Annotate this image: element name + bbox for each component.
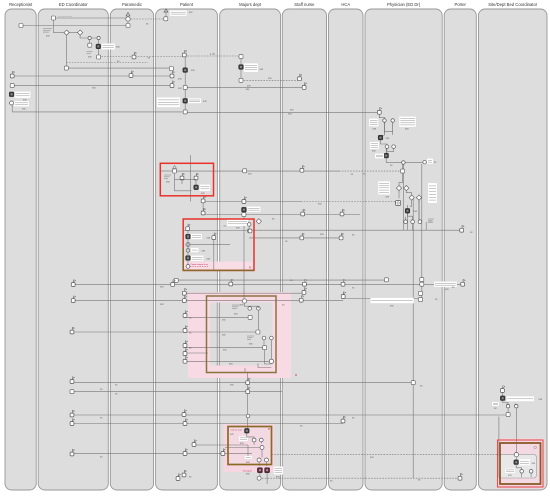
wire gateway down2	[418, 199, 420, 222]
label cubicle cleaned ready	[244, 63, 258, 72]
event p col4	[183, 326, 187, 333]
task ED coordinator start	[51, 16, 55, 20]
wire into box5	[515, 417, 517, 455]
tiny label	[249, 266, 251, 270]
wire receptionist to patient 2	[12, 85, 172, 87]
annotation	[87, 52, 93, 54]
wire box3 obs1	[185, 316, 250, 318]
highlight pink region around majors treatment box	[188, 292, 291, 378]
task specialty a	[243, 169, 247, 173]
event p col5	[183, 341, 187, 348]
tiny label	[539, 398, 543, 401]
annotation ED notes	[43, 29, 52, 33]
dark task patient seen by dr	[186, 234, 191, 239]
lane Receptionist	[5, 2, 36, 490]
event EDC row2	[71, 296, 75, 303]
box5 inner rounded rect	[498, 454, 536, 478]
event HCA bed	[341, 416, 346, 423]
tiny label	[160, 303, 164, 306]
wire b3 loop	[264, 340, 271, 364]
label ED front desk	[15, 92, 31, 99]
task register	[88, 43, 92, 47]
dark task allocate porter	[514, 460, 519, 465]
tiny label	[247, 84, 251, 87]
wire b3 entry	[245, 303, 259, 308]
event staff nurse accepts	[302, 83, 307, 90]
wire r2 spine	[187, 231, 189, 266]
dark task patient moves	[183, 68, 188, 73]
gateway ring node	[396, 201, 401, 206]
task physician decision	[411, 381, 415, 385]
event paramedic handover call	[132, 52, 136, 59]
event nurse tests	[300, 233, 305, 240]
svg-text:HCA: HCA	[341, 2, 350, 7]
event HCA row2	[341, 292, 346, 299]
wire long handover row1	[73, 283, 463, 285]
tiny label	[117, 60, 120, 63]
dark task patient to cubicle	[183, 99, 188, 104]
node b5 a	[520, 470, 524, 474]
dark maroon task t1	[257, 468, 262, 473]
event r2 row	[186, 224, 191, 231]
wire majors to staff nurse dashed	[241, 79, 299, 81]
wire majors spine	[240, 56, 242, 80]
event patient bed	[182, 410, 186, 417]
wire obs row	[184, 292, 304, 294]
dark task patient ready to move	[186, 256, 191, 261]
tiny label	[372, 150, 376, 153]
svg-text:R: R	[268, 427, 270, 431]
wire receptionist to paramedic	[21, 25, 128, 27]
event specialty nurse	[300, 166, 305, 173]
tiny label	[189, 11, 193, 14]
tiny label	[189, 476, 192, 479]
node small b	[97, 36, 100, 39]
tiny label	[452, 286, 455, 289]
wire box3 obs2	[72, 331, 258, 333]
wire results row	[176, 279, 386, 281]
lane Majors dept	[220, 2, 281, 490]
node assess2	[391, 119, 395, 123]
tiny label	[207, 236, 211, 239]
task transfer done	[242, 213, 246, 217]
task EDC dec2	[70, 390, 74, 394]
event patient arrives front desk	[10, 71, 15, 78]
wire tests	[249, 237, 341, 239]
highlight pink strip in red box 2	[184, 262, 253, 271]
dark maroon task t2	[265, 468, 270, 473]
event paramedic waits	[129, 71, 133, 78]
task r2 right b	[248, 229, 252, 233]
wire stub	[224, 225, 227, 227]
label px	[427, 159, 433, 165]
node site b	[515, 405, 518, 408]
label bed request	[492, 402, 499, 406]
tiny label	[46, 35, 50, 38]
lane ED Coordinator	[38, 2, 108, 490]
tiny label	[100, 417, 103, 420]
tiny label	[494, 407, 497, 410]
tiny label	[515, 403, 517, 405]
tiny label	[207, 257, 211, 260]
gateway chance seen	[256, 219, 261, 224]
node b5 entry	[514, 453, 518, 457]
event patient row2	[182, 296, 187, 303]
tiny label	[260, 68, 264, 71]
task bed allocated	[506, 413, 510, 417]
wire site cluster	[502, 392, 516, 417]
wire physician transfer loop	[381, 140, 394, 153]
wire site loop bottom	[499, 476, 522, 478]
wire bend to ring	[394, 202, 396, 204]
dark task ED front desk triage	[9, 92, 14, 97]
task results patient	[174, 278, 178, 282]
tiny label	[116, 46, 120, 49]
tiny label	[160, 286, 164, 289]
tiny label	[58, 16, 72, 18]
tiny label	[414, 210, 418, 213]
tiny label	[222, 334, 226, 337]
tiny label	[373, 128, 377, 131]
task ED coordinator allocate	[64, 66, 68, 70]
svg-text:Majors dept: Majors dept	[239, 2, 262, 7]
node r2 tests	[186, 249, 190, 253]
event patient waits 1	[170, 71, 174, 78]
event nurse obs a	[302, 288, 307, 295]
wire r2 moved dashed red	[190, 265, 208, 267]
wire site loop vertical	[498, 417, 500, 478]
task patient in majors	[183, 110, 187, 114]
label triage complete	[14, 101, 29, 107]
node b5 b	[529, 470, 533, 474]
wire nurse stub	[202, 202, 204, 214]
tiny label	[191, 263, 209, 266]
wire patient spine	[184, 55, 186, 112]
wire to dark task	[407, 205, 409, 230]
annotation box3	[232, 305, 240, 309]
tiny label	[290, 279, 293, 282]
label referral	[375, 154, 384, 159]
tiny label	[363, 173, 366, 176]
dark task investigations	[405, 209, 410, 214]
event porter go	[458, 473, 463, 480]
wire physician stub	[378, 114, 380, 118]
node small a	[88, 36, 91, 39]
tiny label	[191, 69, 195, 72]
patient walk-in marker	[164, 9, 168, 12]
event obs start	[201, 196, 206, 203]
wire b5	[516, 457, 531, 477]
node r2 right a	[247, 223, 251, 227]
label tests complete	[191, 248, 199, 253]
svg-text:ED Coordinator: ED Coordinator	[59, 2, 88, 7]
wire box3 exit	[244, 368, 246, 372]
tiny label	[100, 388, 103, 391]
red box R5	[498, 440, 544, 487]
task results 0	[420, 278, 424, 282]
wire box3 obs4	[185, 360, 271, 362]
wire bed request long	[72, 414, 507, 416]
tiny label	[318, 203, 322, 206]
tiny label	[370, 456, 374, 459]
wire plan down	[402, 165, 404, 231]
wire specialty referral dashed	[339, 170, 403, 172]
tiny label	[231, 430, 243, 432]
event majors dec2	[246, 387, 251, 394]
node box3 entry	[242, 299, 246, 303]
tiny label	[234, 313, 238, 316]
event patient called	[182, 50, 187, 57]
wire r2 row2	[190, 244, 230, 246]
event EDC row1	[71, 280, 75, 287]
event patient lower2	[183, 449, 187, 456]
label r1	[200, 185, 211, 192]
tiny label	[248, 173, 252, 176]
label patient walks with porter	[157, 97, 180, 107]
wire inv down	[425, 222, 427, 230]
node b3 c	[262, 336, 266, 340]
highlight pink region around call-bed box	[224, 424, 275, 472]
tiny label	[88, 56, 92, 59]
wire assess b	[392, 123, 394, 136]
gateway plan b	[416, 195, 421, 200]
node site a	[506, 405, 509, 408]
event majors dec1	[246, 378, 251, 385]
event obs2	[242, 197, 247, 204]
task b3 obs2	[256, 330, 260, 334]
tiny label	[201, 192, 205, 195]
task xray b	[419, 298, 423, 302]
svg-text:Paramedic: Paramedic	[122, 2, 142, 7]
label transfer request	[370, 142, 379, 149]
wire to triage complete	[97, 38, 99, 57]
task results dr	[384, 278, 388, 282]
label porter job	[519, 459, 530, 466]
wire r2 right	[248, 226, 250, 229]
olive box B3	[207, 296, 277, 373]
label assessment decide plan	[399, 117, 416, 128]
tiny label	[351, 173, 354, 176]
gateway X1	[64, 30, 69, 35]
tiny label	[203, 100, 207, 103]
node chair	[247, 229, 251, 233]
wire to porter line	[412, 224, 414, 231]
wire short	[185, 352, 208, 354]
tiny label	[290, 109, 294, 112]
event EDC dec1	[70, 377, 75, 384]
annotation r1	[164, 175, 171, 179]
wire paramedic down	[127, 19, 129, 26]
tiny label	[352, 417, 355, 420]
wire b4 loop	[259, 462, 266, 466]
tiny label	[300, 425, 303, 428]
node inv2	[418, 220, 422, 224]
tiny label	[268, 77, 272, 80]
node plan a	[402, 161, 406, 165]
wire transfer to majors	[203, 214, 360, 216]
tiny label	[420, 385, 423, 388]
tiny label	[189, 317, 192, 320]
label chance to be seen	[227, 220, 248, 227]
wire row	[72, 423, 343, 425]
wire gateway to triage	[80, 37, 99, 39]
label further assessments required	[378, 181, 390, 194]
wire porter down1	[259, 473, 261, 479]
tiny label	[23, 99, 27, 102]
wire into box4	[194, 444, 248, 446]
tiny label	[428, 221, 434, 224]
event r1 a	[180, 173, 184, 180]
svg-text:Receptionist: Receptionist	[9, 2, 33, 7]
label collect patient	[505, 468, 515, 473]
label site coordinator note	[507, 396, 535, 401]
node t2	[392, 145, 396, 149]
event EDC bed	[70, 410, 75, 417]
node b4 exit1	[257, 458, 261, 462]
task b3 obs3	[263, 346, 267, 350]
tiny label	[236, 227, 240, 230]
event nurse row1	[303, 279, 308, 286]
wire majors wait	[213, 238, 215, 270]
event site entry	[501, 386, 506, 393]
label ask for bed	[239, 436, 248, 441]
svg-text:R: R	[249, 266, 251, 270]
wire between gateways	[67, 32, 81, 34]
wire ED to patient	[66, 67, 171, 69]
tiny label	[445, 288, 449, 291]
wire patient to majors	[184, 55, 241, 57]
wire physician long vertical	[412, 199, 414, 478]
wire dashed ED coordinator	[66, 62, 148, 64]
node b3 exit	[269, 359, 273, 363]
event patient edge	[176, 474, 180, 481]
lane HCA	[329, 2, 364, 490]
event patient waits 2	[170, 81, 174, 88]
task Receptionist book-in start	[19, 24, 23, 28]
tiny label	[532, 462, 536, 465]
node b4 a	[252, 438, 256, 442]
svg-text:xxxx: xxxx	[428, 221, 434, 224]
wire patient moved left	[72, 453, 223, 455]
node b4 b	[259, 438, 263, 442]
node b4 c	[260, 446, 264, 450]
task patient obs	[183, 85, 187, 89]
tiny label	[223, 349, 227, 352]
event nurse transfer	[301, 209, 306, 216]
tiny label	[385, 195, 389, 198]
wire nurse obs	[203, 201, 301, 203]
tiny label	[166, 181, 170, 184]
dark task referral	[384, 153, 389, 158]
brown box B5	[500, 443, 541, 484]
lane Physician (ED Dr)	[365, 2, 442, 490]
tiny label	[230, 433, 234, 436]
svg-text:Porter: Porter	[455, 2, 467, 7]
tiny label	[230, 384, 234, 387]
tiny label	[506, 403, 508, 405]
wire b4	[247, 433, 262, 457]
svg-text:Staff nurse: Staff nurse	[294, 2, 315, 7]
wire ED coordinator to paramedic	[53, 17, 128, 19]
task results	[420, 282, 424, 286]
label Dr orders tests	[428, 183, 437, 203]
tiny label	[146, 22, 149, 25]
tiny label	[288, 113, 292, 116]
event EDC lower	[70, 449, 75, 456]
tiny label	[246, 461, 250, 464]
tiny label	[276, 476, 280, 479]
task paramedic book-in	[126, 24, 130, 28]
wire box3 obs3	[185, 347, 264, 349]
tiny label	[189, 332, 192, 335]
lane Porter	[444, 2, 476, 490]
wire crossing r1	[190, 155, 192, 202]
wire dashed to patient arrives	[128, 18, 164, 20]
svg-text:Patient: Patient	[180, 2, 194, 7]
lane Patient	[156, 2, 218, 490]
event EDC row3	[70, 327, 75, 334]
tiny label	[246, 88, 250, 91]
tiny label	[405, 128, 409, 131]
node assess1	[383, 119, 387, 123]
event r1 b	[194, 173, 198, 180]
wire receptionist to patient 1	[12, 75, 172, 77]
red letter R box4	[268, 427, 270, 431]
svg-text:Site/Dept Bed Coordinator: Site/Dept Bed Coordinator	[488, 2, 537, 7]
wire b3 spine	[257, 310, 259, 330]
tiny label	[435, 298, 438, 301]
task b3 obs1	[248, 315, 252, 319]
dark task initial assessment	[378, 135, 383, 140]
tiny label	[282, 304, 285, 307]
tiny label	[434, 161, 437, 164]
box B4 interior pinkish	[228, 427, 272, 465]
wire patient to physician triage	[185, 111, 379, 113]
event p col3	[183, 311, 187, 318]
label ready to move	[191, 256, 204, 262]
event patient lower1	[192, 440, 196, 447]
dark task call site coordinator	[245, 429, 250, 434]
tiny label	[202, 250, 206, 253]
lane Site/Dept Bed Coordinator	[479, 2, 548, 490]
wire gateway stub	[79, 33, 81, 38]
event patient obs a	[182, 288, 187, 295]
dark task triage nurse	[96, 44, 101, 49]
label moved	[188, 98, 201, 103]
wire specialty referral	[175, 170, 340, 172]
svg-text:Physician (ED Dr): Physician (ED Dr)	[387, 2, 421, 7]
tiny label	[418, 479, 421, 482]
task specialty review	[401, 169, 405, 173]
wire triage to patient walk-in	[99, 56, 185, 58]
marker b5	[534, 446, 537, 449]
label confirm	[245, 456, 253, 459]
tiny label	[115, 384, 118, 387]
wire physician assess loop	[379, 114, 392, 135]
tiny label	[390, 305, 394, 308]
gateway X2	[78, 30, 83, 35]
tiny label	[189, 347, 192, 350]
label patient triage	[369, 119, 379, 127]
tiny label	[386, 137, 390, 140]
event patient exit	[182, 470, 186, 477]
wire referral	[385, 149, 387, 163]
node b3 d	[270, 336, 274, 340]
tiny label	[240, 304, 244, 307]
tiny label	[249, 343, 253, 346]
event p col6	[183, 349, 187, 356]
wire into gateway	[395, 202, 398, 204]
